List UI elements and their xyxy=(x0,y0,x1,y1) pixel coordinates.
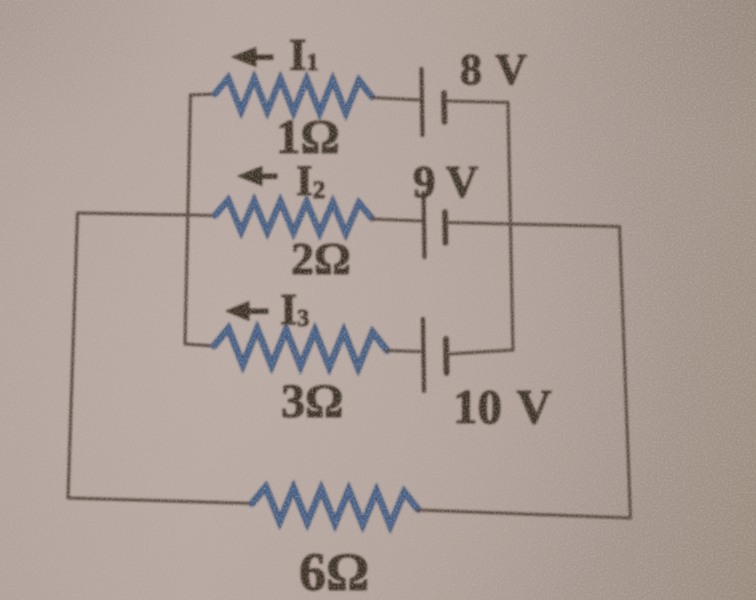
arrow I3 xyxy=(226,302,268,321)
battery B2 short plate xyxy=(442,212,448,243)
resistor R6 6ohm xyxy=(252,487,418,526)
battery B3 short plate xyxy=(443,339,449,373)
battery B2 long plate xyxy=(424,193,425,257)
resistor R1 1ohm xyxy=(215,78,372,113)
wire: branch3 corner to R3 xyxy=(185,344,214,346)
wire: inner-right vertical xyxy=(508,103,513,351)
resistor R3 3ohm xyxy=(214,328,387,367)
wire: bottom left segment xyxy=(68,498,252,504)
resistor R2 2ohm xyxy=(215,200,372,233)
arrow I2 xyxy=(238,167,277,186)
battery B1 long plate xyxy=(422,69,423,135)
wire: outer-right vertical xyxy=(620,227,631,519)
battery B1 short plate xyxy=(441,93,447,122)
wire: R3 to battery B3 xyxy=(387,351,420,352)
arrow I1 xyxy=(232,48,273,67)
wire: inner-left vertical xyxy=(185,95,191,344)
battery B3 long plate xyxy=(423,319,424,391)
wire: outer-left vertical xyxy=(68,213,78,498)
wire: R1 to battery B1 xyxy=(372,98,419,101)
wire: branch1 corner to R1 xyxy=(191,94,217,95)
wire: branch2 left segment xyxy=(78,213,216,216)
wire: B3 to inner-right vertical bottom xyxy=(449,350,514,354)
wire: B2 to outer-right corner xyxy=(448,223,620,227)
wire: R2 to battery B2 xyxy=(372,219,421,221)
wire: bottom right segment xyxy=(418,510,631,518)
wire: B1 to inner-right corner xyxy=(447,101,509,103)
